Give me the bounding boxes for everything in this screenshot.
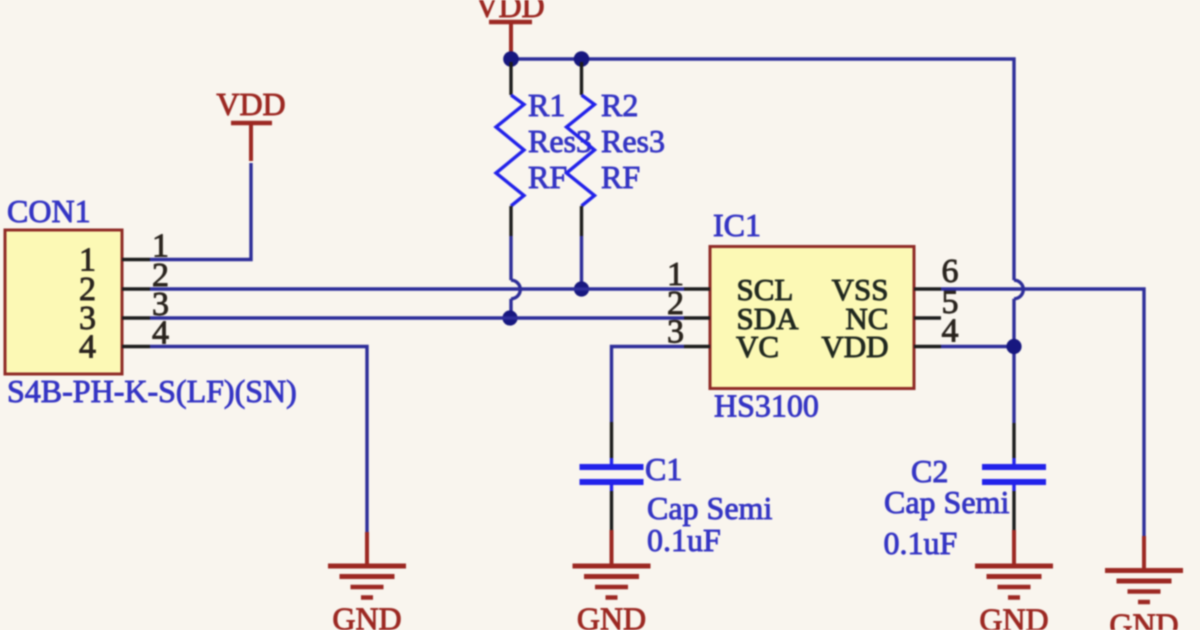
connector CON1 body — [5, 230, 122, 374]
IC1 pin 2 SDA — [684, 316, 710, 319]
svg-text:0.1uF: 0.1uF — [884, 525, 958, 561]
IC1 pin 4 VDD — [914, 345, 941, 348]
svg-text:HS3100: HS3100 — [714, 388, 819, 424]
svg-text:GND: GND — [577, 601, 646, 630]
wire VSS pin6 to right GND — [941, 289, 1144, 536]
wire right vertical to C2 — [1012, 299, 1015, 423]
wire R2 bottom — [580, 236, 583, 289]
svg-text:VDD: VDD — [821, 329, 888, 364]
ground GND (C1) — [573, 530, 651, 630]
CON1 pin 2 — [122, 287, 150, 290]
wire R1 bottom with hop over SCL — [509, 236, 512, 280]
capacitor C2 — [982, 423, 1046, 530]
junction VDD net at C2 — [1006, 339, 1021, 354]
ground GND (CON1 pin4) — [328, 532, 406, 630]
CON1 pin 1 — [122, 258, 150, 261]
junction R1 to SDA — [502, 310, 517, 325]
wire VDD to CON1 pin1 — [150, 163, 251, 260]
svg-text:GND: GND — [332, 601, 401, 630]
svg-text:4: 4 — [942, 313, 959, 350]
svg-text:4: 4 — [79, 329, 96, 366]
svg-text:S4B-PH-K-S(LF)(SN): S4B-PH-K-S(LF)(SN) — [7, 373, 297, 409]
IC1 pin 5 NC — [914, 316, 941, 319]
svg-text:IC1: IC1 — [713, 207, 761, 243]
power symbol VDD left — [216, 86, 285, 161]
svg-text:VDD: VDD — [216, 86, 285, 122]
svg-text:0.1uF: 0.1uF — [647, 522, 721, 558]
wire CON1 pin4 to GND — [150, 347, 367, 533]
wire SCL net CON1 pin2 to IC pin1 — [150, 287, 684, 290]
capacitor C1 — [580, 422, 644, 530]
ground GND (right, VSS) — [1105, 536, 1183, 630]
wire VC net to C1 — [612, 347, 685, 423]
svg-text:RF: RF — [601, 159, 640, 195]
junction at R1 top — [503, 51, 519, 67]
IC1 body — [710, 247, 914, 389]
svg-text:GND: GND — [1109, 607, 1178, 630]
power symbol VDD top — [475, 0, 544, 55]
IC1 pin 6 VSS — [914, 287, 941, 290]
svg-text:R1: R1 — [528, 87, 565, 123]
wire top VDD rail — [511, 59, 1014, 280]
wire SDA net CON1 pin3 to IC pin2 — [150, 316, 684, 319]
junction R2 to SCL — [574, 281, 589, 296]
svg-text:R2: R2 — [601, 87, 638, 123]
CON1 pin 4 — [122, 345, 150, 348]
svg-text:Res3: Res3 — [601, 123, 665, 159]
resistor R1 — [496, 62, 524, 236]
IC1 pin 1 SCL — [684, 287, 710, 290]
CON1 pin 3 — [122, 316, 150, 319]
wire VDD pin4 to junction — [941, 345, 1014, 348]
ground GND (C2) — [975, 530, 1053, 630]
svg-text:Cap Semi: Cap Semi — [884, 484, 1009, 520]
IC1 pin 3 VC — [684, 345, 710, 348]
svg-text:Cap Semi: Cap Semi — [647, 490, 772, 526]
svg-text:VC: VC — [736, 329, 779, 364]
junction at R2 top — [574, 51, 590, 67]
svg-text:RF: RF — [528, 159, 567, 195]
svg-text:C1: C1 — [645, 451, 682, 487]
wire hop right vertical over pin6 net — [1014, 280, 1023, 299]
svg-text:CON1: CON1 — [7, 193, 91, 229]
svg-text:GND: GND — [979, 602, 1048, 630]
resistor R2 — [567, 62, 595, 236]
